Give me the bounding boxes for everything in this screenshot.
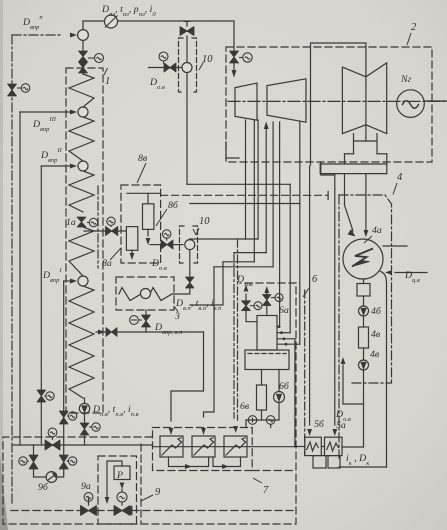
svg-text:6: 6 [312, 274, 318, 285]
svg-text:5а: 5а [336, 420, 346, 431]
svg-text:5б: 5б [314, 419, 325, 430]
svg-text:9а: 9а [81, 481, 91, 492]
svg-text:2: 2 [411, 22, 417, 33]
svg-text:8в: 8в [138, 153, 148, 164]
svg-text:9б: 9б [38, 482, 49, 493]
svg-text:4в: 4в [371, 329, 381, 340]
svg-text:10: 10 [199, 216, 210, 227]
svg-text:4в: 4в [370, 349, 380, 360]
svg-text:3: 3 [174, 311, 180, 322]
svg-text:4а: 4а [372, 225, 382, 236]
svg-text:9: 9 [155, 487, 161, 498]
svg-text:10: 10 [202, 54, 213, 65]
svg-text:8а: 8а [102, 258, 112, 269]
svg-text:4б: 4б [371, 306, 382, 317]
svg-text:7: 7 [263, 485, 269, 496]
svg-text:1: 1 [105, 76, 110, 87]
svg-text:Nг: Nг [400, 74, 412, 85]
svg-text:Р: Р [116, 470, 123, 481]
svg-text:1а: 1а [66, 217, 76, 228]
svg-text:6б: 6б [279, 381, 290, 392]
svg-text:6а: 6а [279, 305, 289, 316]
svg-text:8б: 8б [168, 200, 179, 211]
svg-text:4: 4 [397, 172, 403, 183]
svg-text:6в: 6в [240, 401, 250, 412]
